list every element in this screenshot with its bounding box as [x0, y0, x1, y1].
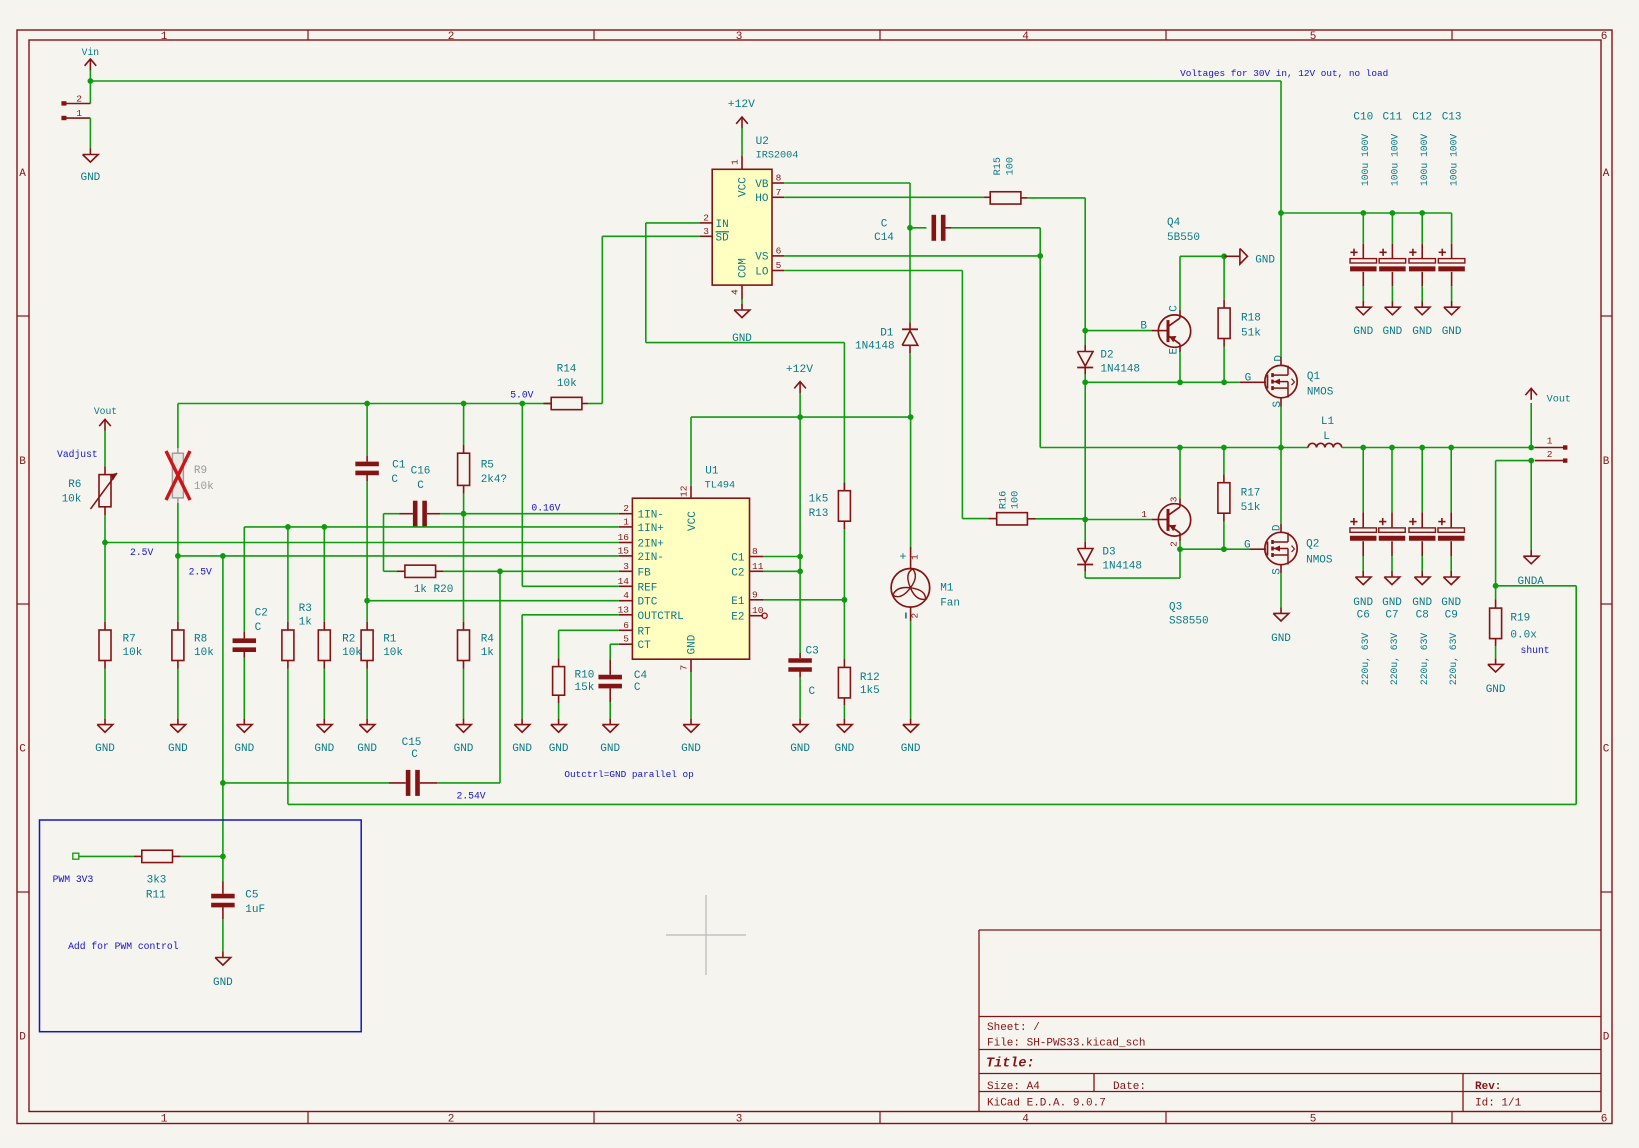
svg-text:10k: 10k: [194, 481, 214, 493]
svg-text:Sheet: /: Sheet: /: [987, 1022, 1040, 1034]
svg-text:C10: C10: [1353, 111, 1373, 123]
svg-text:1N4148: 1N4148: [1102, 560, 1142, 572]
svg-text:C3: C3: [806, 645, 819, 657]
svg-text:C13: C13: [1442, 111, 1462, 123]
svg-text:R14: R14: [557, 364, 577, 376]
svg-text:G: G: [1244, 540, 1251, 552]
svg-text:G: G: [1245, 372, 1252, 384]
svg-text:Q4: Q4: [1167, 217, 1181, 229]
svg-text:R13: R13: [809, 508, 829, 520]
svg-text:0.0x: 0.0x: [1510, 630, 1537, 642]
svg-text:Q1: Q1: [1307, 371, 1321, 383]
svg-text:7: 7: [679, 665, 690, 671]
svg-text:C4: C4: [634, 670, 648, 682]
svg-text:C12: C12: [1412, 111, 1432, 123]
svg-text:GND: GND: [687, 634, 699, 654]
svg-text:C5: C5: [245, 890, 258, 902]
svg-text:B: B: [1603, 456, 1610, 468]
svg-text:1: 1: [161, 1114, 168, 1126]
svg-text:3: 3: [623, 561, 629, 572]
svg-text:2k4?: 2k4?: [481, 474, 507, 486]
svg-text:RT: RT: [638, 626, 652, 638]
svg-text:R3: R3: [299, 603, 312, 615]
svg-text:C16: C16: [411, 466, 431, 478]
svg-text:VS: VS: [755, 252, 769, 264]
svg-text:2: 2: [623, 503, 629, 514]
svg-text:B: B: [19, 456, 26, 468]
svg-text:5: 5: [776, 260, 782, 271]
svg-text:15: 15: [618, 545, 630, 556]
svg-text:10k: 10k: [194, 647, 214, 659]
svg-text:D2: D2: [1100, 350, 1113, 362]
svg-text:R6: R6: [68, 479, 81, 491]
svg-text:NMOS: NMOS: [1307, 387, 1334, 399]
svg-text:Vin: Vin: [82, 47, 99, 58]
svg-text:4: 4: [730, 289, 741, 295]
svg-text:1k5: 1k5: [860, 685, 880, 697]
svg-text:R5: R5: [481, 460, 494, 472]
svg-text:8: 8: [776, 173, 782, 184]
svg-text:FB: FB: [638, 567, 652, 579]
svg-text:VB: VB: [755, 179, 769, 191]
svg-text:1N4148: 1N4148: [1100, 364, 1140, 376]
svg-text:5: 5: [1310, 1114, 1317, 1126]
svg-text:C9: C9: [1445, 610, 1458, 622]
svg-text:2: 2: [76, 94, 82, 105]
svg-text:Title:: Title:: [986, 1057, 1035, 1072]
svg-text:Voltages for 30V in, 12V out,: Voltages for 30V in, 12V out, no load: [1180, 68, 1388, 79]
svg-text:C: C: [19, 744, 26, 756]
svg-text:A: A: [1603, 168, 1610, 180]
svg-text:12: 12: [679, 485, 690, 497]
svg-text:1: 1: [1141, 509, 1147, 520]
svg-text:GND: GND: [314, 743, 334, 755]
svg-text:OUTCTRL: OUTCTRL: [638, 611, 684, 623]
svg-text:100u 100V: 100u 100V: [1449, 134, 1460, 187]
svg-text:PWM 3V3: PWM 3V3: [53, 874, 94, 885]
svg-text:Outctrl=GND parallel op: Outctrl=GND parallel op: [564, 769, 693, 780]
svg-text:100: 100: [1006, 157, 1017, 175]
svg-text:GND: GND: [790, 743, 810, 755]
svg-text:+12V: +12V: [728, 99, 755, 111]
svg-text:10k: 10k: [557, 378, 577, 390]
svg-text:Date:: Date:: [1113, 1081, 1146, 1093]
svg-text:R18: R18: [1241, 313, 1261, 325]
svg-text:1: 1: [76, 108, 82, 119]
svg-text:KiCad E.D.A. 9.0.7: KiCad E.D.A. 9.0.7: [987, 1098, 1106, 1110]
svg-text:6: 6: [776, 246, 782, 257]
svg-text:File: SH-PWS33.kicad_sch: File: SH-PWS33.kicad_sch: [987, 1038, 1145, 1050]
svg-text:4: 4: [1022, 31, 1029, 43]
svg-text:VCC: VCC: [738, 177, 750, 197]
svg-text:R17: R17: [1241, 487, 1261, 499]
svg-text:2: 2: [448, 1114, 455, 1126]
svg-text:GND: GND: [1271, 633, 1291, 645]
svg-text:DTC: DTC: [638, 597, 658, 609]
svg-text:13: 13: [618, 604, 630, 615]
svg-text:COM: COM: [738, 258, 750, 278]
svg-text:VCC: VCC: [687, 511, 699, 531]
svg-text:2.54V: 2.54V: [457, 791, 486, 802]
svg-text:B: B: [1140, 321, 1147, 333]
svg-text:4: 4: [623, 590, 629, 601]
svg-text:R19: R19: [1510, 613, 1530, 625]
svg-text:10k: 10k: [342, 647, 362, 659]
svg-text:10k: 10k: [123, 647, 143, 659]
svg-text:D1: D1: [880, 328, 894, 340]
svg-text:100u 100V: 100u 100V: [1360, 134, 1371, 187]
svg-text:3: 3: [1169, 496, 1180, 502]
svg-text:U1: U1: [705, 466, 719, 478]
svg-text:GND: GND: [681, 743, 701, 755]
svg-text:2.5V: 2.5V: [130, 547, 153, 558]
svg-text:U2: U2: [756, 136, 769, 148]
svg-text:GND: GND: [1486, 684, 1506, 696]
svg-text:100u 100V: 100u 100V: [1419, 134, 1430, 187]
svg-text:GND: GND: [1412, 326, 1432, 338]
svg-text:GND: GND: [1353, 597, 1373, 609]
svg-text:GND: GND: [95, 743, 115, 755]
svg-text:TL494: TL494: [705, 480, 736, 491]
svg-text:GND: GND: [454, 743, 474, 755]
svg-text:1IN-: 1IN-: [638, 510, 664, 522]
svg-text:C2: C2: [731, 567, 744, 579]
svg-text:3k3: 3k3: [147, 875, 167, 887]
svg-text:REF: REF: [638, 582, 658, 594]
svg-text:C: C: [391, 474, 398, 486]
svg-text:C: C: [634, 682, 641, 694]
svg-text:E: E: [1169, 348, 1181, 355]
svg-text:C15: C15: [402, 737, 422, 749]
svg-text:2: 2: [703, 213, 709, 224]
svg-text:2.5V: 2.5V: [189, 567, 212, 578]
svg-text:R10: R10: [575, 669, 595, 681]
svg-text:C8: C8: [1416, 610, 1429, 622]
svg-text:R12: R12: [860, 672, 880, 684]
svg-text:1k: 1k: [481, 647, 495, 659]
svg-text:1: 1: [910, 554, 921, 560]
svg-text:GND: GND: [357, 743, 377, 755]
svg-text:C: C: [1603, 744, 1610, 756]
svg-text:1: 1: [1547, 436, 1553, 447]
svg-text:R2: R2: [342, 633, 355, 645]
svg-text:14: 14: [618, 576, 630, 587]
svg-text:GND: GND: [1255, 254, 1275, 266]
svg-text:3: 3: [703, 226, 709, 237]
svg-text:C: C: [255, 622, 262, 634]
svg-text:5: 5: [1310, 31, 1317, 43]
svg-text:C1: C1: [392, 460, 406, 472]
svg-text:C: C: [1169, 305, 1181, 312]
svg-text:Vadjust: Vadjust: [57, 449, 98, 460]
svg-text:100u 100V: 100u 100V: [1389, 134, 1400, 187]
svg-text:2IN-: 2IN-: [638, 552, 664, 564]
svg-text:Id: 1/1: Id: 1/1: [1475, 1098, 1522, 1110]
svg-text:R7: R7: [123, 633, 136, 645]
svg-text:1: 1: [730, 159, 741, 165]
svg-text:4: 4: [1022, 1114, 1029, 1126]
svg-text:R16: R16: [999, 491, 1010, 509]
svg-text:S: S: [1272, 401, 1284, 408]
svg-text:GND: GND: [1382, 326, 1402, 338]
svg-text:D3: D3: [1102, 547, 1115, 559]
svg-text:6: 6: [1601, 31, 1608, 43]
svg-text:2: 2: [1169, 541, 1180, 547]
svg-text:7: 7: [776, 187, 782, 198]
svg-text:shunt: shunt: [1521, 645, 1550, 656]
svg-text:R8: R8: [194, 633, 207, 645]
svg-text:51k: 51k: [1241, 502, 1261, 514]
svg-text:5.0V: 5.0V: [510, 389, 533, 400]
svg-text:C1: C1: [731, 553, 745, 565]
svg-text:D: D: [19, 1032, 26, 1044]
svg-text:1k: 1k: [299, 617, 313, 629]
svg-text:9: 9: [752, 589, 758, 600]
svg-text:1IN+: 1IN+: [638, 523, 664, 535]
svg-text:R15: R15: [993, 157, 1004, 175]
svg-text:C7: C7: [1385, 610, 1398, 622]
svg-text:GND: GND: [168, 743, 188, 755]
svg-text:C: C: [411, 749, 418, 761]
svg-text:GND: GND: [549, 743, 569, 755]
svg-text:8: 8: [752, 546, 758, 557]
svg-text:R1: R1: [383, 633, 397, 645]
svg-text:GND: GND: [901, 743, 921, 755]
svg-text:100: 100: [1011, 491, 1022, 509]
svg-text:2: 2: [910, 613, 921, 619]
svg-text:NMOS: NMOS: [1306, 555, 1333, 567]
svg-text:1N4148: 1N4148: [855, 341, 895, 353]
svg-text:GND: GND: [600, 743, 620, 755]
svg-text:R9: R9: [194, 465, 207, 477]
svg-text:E2: E2: [731, 612, 744, 624]
svg-text:R11: R11: [146, 890, 166, 902]
svg-text:220u, 63V: 220u, 63V: [1419, 633, 1430, 686]
svg-text:51k: 51k: [1241, 327, 1261, 339]
svg-text:GND: GND: [512, 743, 532, 755]
svg-text:GND: GND: [1353, 326, 1373, 338]
svg-text:GND: GND: [234, 743, 254, 755]
svg-text:1k5: 1k5: [809, 494, 829, 506]
svg-text:5: 5: [623, 634, 629, 645]
svg-text:1: 1: [161, 31, 168, 43]
svg-text:0.16V: 0.16V: [531, 502, 560, 513]
svg-text:220u, 63V: 220u, 63V: [1360, 633, 1371, 686]
svg-text:A: A: [19, 168, 26, 180]
svg-text:GND: GND: [213, 977, 233, 989]
svg-text:Add for PWM control: Add for PWM control: [68, 941, 179, 952]
svg-text:GND: GND: [1442, 326, 1462, 338]
svg-text:10k: 10k: [383, 647, 403, 659]
svg-text:2: 2: [448, 31, 455, 43]
svg-text:GND: GND: [1412, 597, 1432, 609]
svg-text:16: 16: [618, 532, 630, 543]
svg-text:3: 3: [736, 31, 743, 43]
svg-text:10k: 10k: [62, 493, 82, 505]
svg-text:GND: GND: [80, 172, 100, 184]
svg-text:2IN+: 2IN+: [638, 539, 664, 551]
svg-text:Q3: Q3: [1169, 602, 1182, 614]
svg-text:Rev:: Rev:: [1475, 1081, 1501, 1093]
svg-text:LO: LO: [755, 266, 769, 278]
svg-text:HO: HO: [755, 193, 769, 205]
svg-text:C: C: [881, 218, 888, 230]
svg-text:Fan: Fan: [940, 597, 960, 609]
svg-text:5B550: 5B550: [1167, 232, 1200, 244]
svg-text:GND: GND: [834, 743, 854, 755]
svg-text:+: +: [899, 550, 906, 564]
svg-text:220u, 63V: 220u, 63V: [1389, 633, 1400, 686]
svg-text:Vout: Vout: [94, 406, 117, 417]
svg-text:3: 3: [736, 1114, 743, 1126]
svg-text:R4: R4: [481, 633, 495, 645]
svg-text:1uF: 1uF: [245, 904, 265, 916]
svg-text:Size: A4: Size: A4: [987, 1081, 1040, 1093]
svg-text:C: C: [417, 480, 424, 492]
svg-text:6: 6: [1601, 1114, 1608, 1126]
svg-text:IRS2004: IRS2004: [756, 151, 799, 162]
svg-text:D: D: [1274, 355, 1286, 362]
svg-text:D: D: [1603, 1032, 1610, 1044]
svg-text:GND: GND: [1441, 597, 1461, 609]
svg-text:Q2: Q2: [1306, 539, 1319, 551]
svg-text:220u, 63V: 220u, 63V: [1448, 633, 1459, 686]
svg-text:2: 2: [1547, 449, 1553, 460]
svg-text:1: 1: [623, 516, 629, 527]
svg-text:IN: IN: [716, 219, 729, 231]
svg-text:L: L: [1323, 431, 1330, 443]
svg-text:C: C: [809, 686, 816, 698]
svg-text:GND: GND: [1382, 597, 1402, 609]
svg-text:C2: C2: [255, 608, 268, 620]
svg-text:C6: C6: [1357, 610, 1370, 622]
svg-text:L1: L1: [1321, 416, 1335, 428]
svg-text:M1: M1: [940, 583, 954, 595]
svg-text:+12V: +12V: [786, 364, 813, 376]
svg-text:C11: C11: [1382, 111, 1402, 123]
svg-text:1k R20: 1k R20: [414, 584, 454, 596]
svg-text:Vout: Vout: [1547, 394, 1571, 405]
svg-text:SS8550: SS8550: [1169, 615, 1209, 627]
svg-text:E1: E1: [731, 596, 745, 608]
svg-text:CT: CT: [638, 640, 652, 652]
svg-text:C14: C14: [874, 232, 894, 244]
svg-text:6: 6: [623, 620, 629, 631]
svg-text:15k: 15k: [575, 682, 595, 694]
svg-text:11: 11: [752, 561, 764, 572]
svg-text:SD: SD: [716, 233, 730, 245]
